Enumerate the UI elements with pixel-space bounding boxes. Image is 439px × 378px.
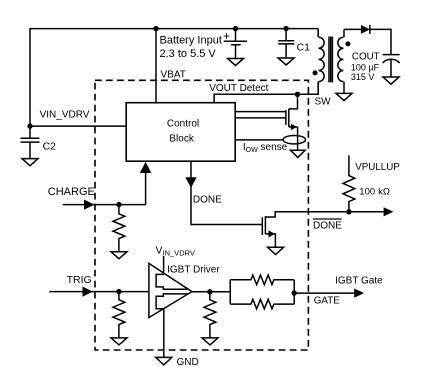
wire: driver output to resistor pair — [192, 291, 230, 293]
capacitor C2 plates — [21, 138, 40, 142]
wire: TRIG input — [49, 291, 149, 293]
svg-text:IGBT Driver: IGBT Driver — [167, 264, 220, 275]
ground: R3 — [111, 338, 127, 345]
node CHARGE junction — [116, 202, 121, 207]
battery B1 stub top — [235, 29, 237, 42]
wire: VOUT Detect net from Control Block to SW node — [214, 82, 318, 103]
capacitor C1 plates — [278, 41, 294, 44]
resistor R2 100k pullup — [343, 155, 355, 212]
svg-text:C2: C2 — [43, 140, 57, 152]
capacitor C2 stub bottom — [29, 142, 31, 158]
svg-text:TRIG: TRIG — [67, 274, 92, 286]
arrow: GATE output — [354, 289, 364, 298]
op-amp: Control Block box — [126, 103, 235, 162]
node gate pulldown junction — [207, 289, 212, 294]
transistor Q2 DONE MOSFET gate bar — [261, 217, 263, 235]
capacitor COUT top plate — [383, 54, 400, 56]
svg-text:VIN_VDRV: VIN_VDRV — [156, 244, 195, 257]
svg-text:+: + — [223, 29, 230, 43]
node VBAT tap junction — [153, 26, 158, 31]
op-amp U2 IGBT driver triangle — [149, 263, 192, 317]
svg-text:GATE: GATE — [314, 296, 340, 307]
diode D1 triangle — [361, 25, 370, 34]
transformer T1 primary polarity dot — [313, 70, 318, 75]
svg-text:IOW sense: IOW sense — [243, 142, 288, 154]
ground: C2 — [22, 159, 38, 166]
wire: Iow sense from Control Block to loop — [235, 139, 283, 141]
ground: C1 — [278, 58, 294, 65]
node VIN_VDRV / C2 junction — [27, 123, 32, 128]
battery B1 plates — [224, 41, 247, 44]
capacitor COUT curved plate — [383, 59, 400, 63]
arrow: into Control Block — [140, 162, 152, 173]
op-amp U2 inner lower step — [156, 294, 188, 309]
resistor R6 bottom gate resistor — [230, 299, 294, 309]
wire: drain branch to VOUT detect MOSFET — [289, 94, 298, 109]
arrow: TRIG input — [83, 287, 93, 297]
transistor Q1 channel bar — [288, 109, 290, 127]
wire: driver VDD stub — [163, 256, 165, 273]
resistor R1 CHARGE pulldown — [113, 205, 125, 252]
svg-text:CHARGE: CHARGE — [48, 186, 95, 198]
battery B1 stub bottom — [235, 45, 237, 59]
node GATE junction — [292, 290, 297, 295]
svg-text:SW: SW — [315, 97, 332, 108]
dashed IC boundary box — [95, 80, 308, 350]
transformer T1 primary winding — [318, 29, 324, 95]
diode D1 cathode bar — [369, 25, 371, 34]
capacitor C2 stub top — [29, 126, 31, 138]
transistor Q1 gate wires (double line from Control Block) — [235, 112, 286, 118]
svg-text:DONE: DONE — [313, 220, 342, 231]
svg-text:VOUT Detect: VOUT Detect — [209, 83, 268, 94]
wire: DONE from Control Block down and right to Q2 gate — [191, 161, 262, 224]
svg-text:GND: GND — [177, 357, 199, 368]
svg-text:DONE: DONE — [193, 194, 222, 205]
current sense loop ellipse — [283, 136, 305, 144]
wire: diode to COUT — [370, 29, 391, 54]
capacitor C1 stub top — [285, 29, 287, 41]
svg-text:C1: C1 — [297, 41, 311, 53]
transformer T1 secondary winding — [338, 29, 344, 93]
transformer T1 core — [329, 37, 332, 83]
node SW junction — [295, 92, 300, 97]
resistor pair left bar — [229, 280, 231, 304]
svg-text:COUT: COUT — [352, 52, 380, 63]
transistor Q1 source lead — [289, 126, 298, 128]
resistor R3 TRIG pulldown — [113, 292, 125, 338]
ground: GND main — [156, 357, 172, 365]
transistor Q2 channel bar — [264, 216, 266, 234]
svg-text:2.3 to 5.5 V: 2.3 to 5.5 V — [160, 48, 217, 60]
arrow: sense current down — [291, 150, 306, 157]
ground: R4 — [202, 338, 218, 345]
svg-text:100kΩ: 100kΩ — [359, 186, 390, 197]
wire: source down through sense loop — [297, 127, 299, 150]
node DONE / pullup junction — [346, 209, 351, 214]
node C1 tap junction — [283, 26, 288, 31]
wire: CHARGE up into Control Block — [145, 164, 147, 205]
node battery tap junction — [233, 26, 238, 31]
svg-text:Control: Control — [167, 118, 199, 129]
wire: VIN_VDRV from left rail to Control Block — [30, 125, 126, 127]
ground: battery — [228, 59, 244, 66]
arrow: DONE output — [384, 207, 394, 216]
wire: secondary to diode — [344, 28, 361, 30]
svg-text:VIN_VDRV: VIN_VDRV — [40, 109, 90, 120]
capacitor COUT stub bottom — [390, 60, 392, 77]
ground: Q2 source — [268, 247, 284, 254]
transistor Q1 VOUT detect MOSFET gate bar — [285, 110, 287, 125]
resistor R5 top gate resistor — [230, 275, 294, 285]
op-amp U2 inner upper step — [156, 274, 188, 289]
ground: R1 — [111, 252, 127, 259]
node TRIG junction — [116, 289, 121, 294]
capacitor C1 stub bottom — [285, 44, 287, 58]
wire: VBAT vertical from top rail to Control Block — [155, 29, 157, 103]
svg-text:VPULLUP: VPULLUP — [355, 162, 400, 173]
svg-text:315 V: 315 V — [351, 72, 375, 82]
arrow: CHARGE input — [84, 200, 94, 210]
transistor Q2 drain lead to DONE rail — [265, 212, 384, 217]
transistor Q1 source arrow — [291, 124, 297, 130]
wire: CHARGE input — [63, 204, 146, 206]
resistor pair right bar — [293, 280, 295, 304]
overline for DONE — [313, 218, 342, 220]
svg-text:Block: Block — [169, 133, 194, 144]
ground: COUT — [383, 77, 399, 84]
transistor Q2 source arrow — [269, 230, 275, 237]
svg-text:100 µF: 100 µF — [351, 62, 380, 72]
transistor Q2 source lead — [265, 234, 275, 247]
arrow: DONE out of block — [185, 177, 196, 188]
svg-text:IGBT Gate: IGBT Gate — [335, 276, 383, 287]
resistor R4 gate pulldown — [204, 292, 216, 338]
ground: transformer secondary — [336, 93, 352, 100]
svg-text:VBAT: VBAT — [161, 70, 186, 81]
wire: driver ground stub to GND — [163, 309, 165, 358]
transformer T1 secondary polarity dot — [345, 41, 350, 46]
svg-text:Battery Input: Battery Input — [160, 35, 222, 47]
wire: GATE output — [294, 292, 354, 294]
wire: battery top rail with left drop to VIN_VDRV — [30, 29, 318, 127]
